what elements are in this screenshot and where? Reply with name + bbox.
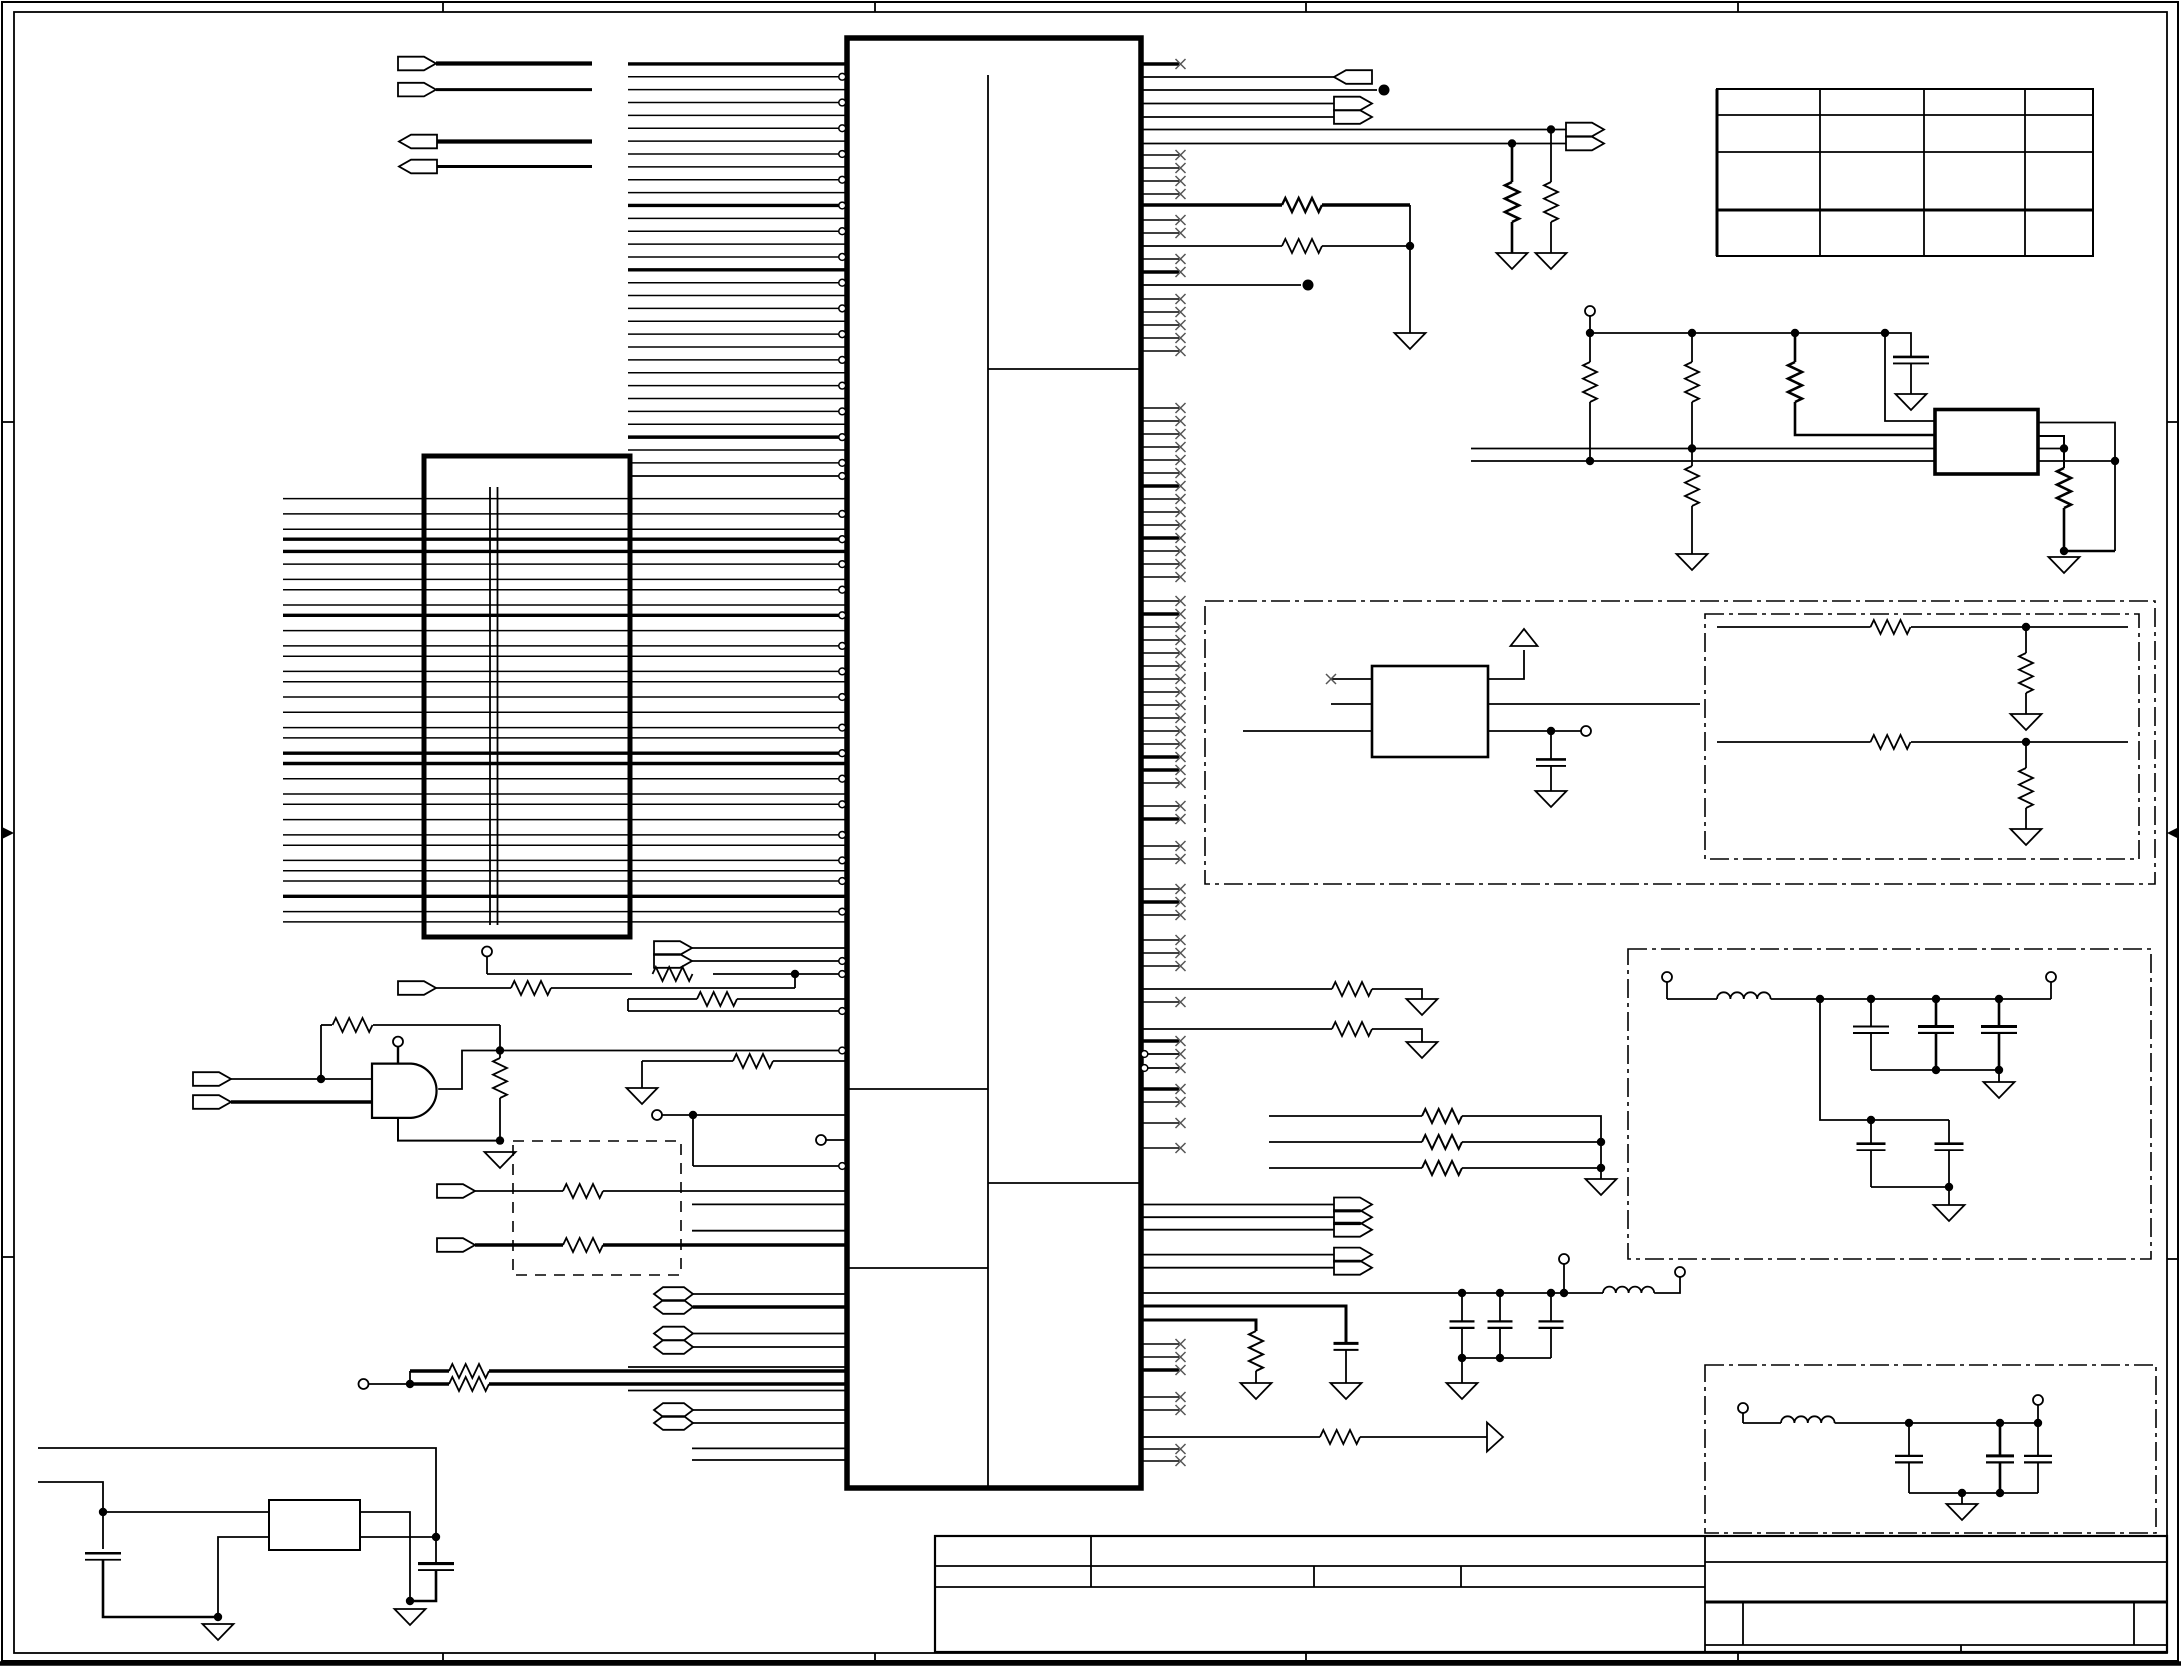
capacitor C4	[1536, 758, 1566, 761]
wire net y1061	[642, 1060, 733, 1062]
revision table col line 2	[1923, 89, 1925, 256]
IC pin stub no-connect NC68	[1141, 1460, 1179, 1462]
wire caps FGH bottom bus	[1462, 1357, 1551, 1359]
wire pulldown net y1029 cont	[1372, 1029, 1422, 1042]
wire reg out A	[2038, 423, 2115, 552]
flag output FS4	[1334, 1248, 1372, 1262]
ground	[627, 1088, 658, 1104]
wire cap G stub	[1499, 1293, 1501, 1321]
flag output K	[1334, 97, 1372, 111]
wire to flag stack3 WF2	[1141, 1216, 1334, 1218]
wire IC left pin top group WL14	[628, 230, 839, 232]
IC pin stub no-connect NC6	[1141, 219, 1179, 221]
wire connector pin WC15	[283, 681, 845, 683]
wire net y1115	[662, 1114, 845, 1116]
power symbol up arrow	[1511, 629, 1538, 646]
node junction	[317, 1075, 325, 1083]
wire pulldown net y1029	[1141, 1028, 1332, 1030]
wire float net B	[1269, 1141, 1422, 1143]
wire connector pin WC4	[283, 538, 839, 541]
wire filter2 rail	[1835, 1422, 2038, 1424]
wire bus y207 cont	[1322, 203, 1410, 206]
frame tick top 3	[1305, 2, 1307, 12]
inductor FB3	[1781, 1416, 1835, 1423]
IC pin stub no-connect NC48	[1141, 888, 1179, 890]
wire osc pin2	[1331, 703, 1372, 705]
node junction	[1547, 727, 1555, 735]
wire to gnd 3	[1461, 1358, 1463, 1383]
IC pin stub no-connect NC67	[1141, 1448, 1179, 1450]
frame tick top 2	[874, 2, 876, 12]
wire bus line 2	[1471, 460, 1935, 462]
IC pin stub no-connect NC15	[1141, 407, 1179, 409]
wire rail to terminal 2	[2037, 1405, 2039, 1423]
frame tick left lower	[2, 1256, 14, 1258]
wire flag C	[437, 139, 592, 143]
wire net y999	[628, 998, 697, 1000]
wire IC left pin top group WL5	[628, 114, 845, 116]
AND gate U2	[372, 1064, 437, 1118]
wire res net y1320	[1141, 1320, 1256, 1331]
wire hex flag	[693, 1333, 845, 1335]
wire connector pin WC9	[283, 604, 845, 606]
capacitor C9	[1935, 1142, 1964, 1145]
IC pin stub no-connect NC32	[1141, 639, 1179, 641]
wire connector pin WC7	[283, 578, 845, 580]
wire regulator gnd pin	[218, 1537, 269, 1617]
wire IC left pin top group WL11	[628, 192, 845, 194]
wire IC left pin top group WL31	[628, 449, 845, 451]
filter box 2 dash-dot	[1705, 1365, 2156, 1533]
wire to flag stack3 WF1	[1141, 1204, 1334, 1206]
node junction	[1406, 242, 1414, 250]
resistor R14	[1282, 239, 1322, 253]
capacitor C10	[1450, 1320, 1475, 1322]
wire float net A cont	[1462, 1116, 1601, 1179]
wire hex flag	[693, 1422, 845, 1424]
terminal circle TP9	[2046, 972, 2056, 982]
title block main divider	[1704, 1536, 1706, 1652]
IC pin stub no-connect NC34	[1141, 665, 1179, 667]
wire IC left pin top group WL23	[628, 346, 845, 348]
wire drop B	[1691, 333, 1693, 362]
terminal circle TP8	[1662, 972, 1672, 982]
buffer arrow symbol	[1487, 1423, 1503, 1452]
IC pin stub no-connect NC13	[1141, 337, 1179, 339]
IC pin stub no-connect NC36	[1141, 691, 1179, 693]
terminal circle TP12	[1738, 1403, 1748, 1413]
wire terminal stub	[1589, 316, 1591, 333]
wire out cap bottom	[410, 1570, 436, 1601]
IC U1 internal vertical divider	[987, 75, 989, 1488]
regulator U3 body	[269, 1500, 360, 1550]
wire bus drop	[1409, 205, 1411, 333]
wire reg pin3 stub	[2038, 448, 2064, 450]
wire to test point 2	[1141, 284, 1301, 286]
node junction	[1458, 1289, 1466, 1297]
frame tick bottom 1	[442, 1653, 444, 1661]
wire IC left pin top group WL29	[628, 423, 845, 425]
wire en cap to gnd	[1550, 766, 1552, 791]
wire input rail lower	[38, 1482, 103, 1549]
IC pin stub no-connect NC12	[1141, 324, 1179, 326]
wire connector pin WC24	[283, 803, 839, 805]
bus flag hex HF3	[654, 1327, 693, 1341]
wire cap I bottom	[1908, 1463, 1910, 1493]
wire IC left pin top group WL27	[628, 398, 845, 400]
frame center arrow left	[2, 827, 14, 839]
wire cap G bottom	[1499, 1328, 1501, 1358]
wire term stub	[1666, 982, 1668, 999]
connector J1 body	[424, 456, 630, 937]
node junction	[2022, 623, 2030, 631]
IC pin stub no-connect NC2	[1141, 154, 1179, 156]
node junction	[2034, 1419, 2042, 1427]
wire gate input 2	[231, 1100, 372, 1103]
wire connector pin WC2	[283, 513, 839, 515]
terminal circle TP1	[482, 947, 492, 957]
IC pin stub no-connect NC27	[1141, 563, 1179, 565]
resistor R27	[1422, 1135, 1462, 1149]
wire terminal stub	[486, 957, 488, 975]
IC U1 internal divider right A	[988, 368, 1141, 370]
wire flag A	[436, 61, 592, 65]
IC pin stub no-connect NC60	[1141, 1122, 1179, 1124]
wire cap I stub	[1908, 1423, 1910, 1455]
inductor FB1	[1717, 992, 1771, 999]
wire y246	[1141, 245, 1282, 247]
IC pin stub no-connect NC61	[1141, 1147, 1179, 1149]
wire cap K stub	[2037, 1423, 2039, 1455]
wire connector pin WC19	[283, 737, 845, 739]
IC U1 body	[847, 38, 1141, 1488]
wire connector pin WC10	[283, 614, 839, 617]
wire IC left pin top group WL24	[628, 359, 839, 361]
wire out cap vertical	[435, 1537, 437, 1563]
terminal circle TP3	[652, 1110, 662, 1120]
wire connector pin WC26	[283, 834, 839, 836]
capacitor C7	[1981, 1025, 2017, 1028]
IC pin stub no-connect NC4	[1141, 180, 1179, 182]
wire reg fb	[2038, 460, 2115, 462]
ground	[1947, 1504, 1978, 1520]
wire gate top pin	[397, 1047, 399, 1064]
wire connector pin WC23	[283, 793, 845, 795]
IC pin stub no-connect NC40	[1141, 743, 1179, 745]
wire cap net y1306 cont	[1345, 1350, 1347, 1383]
terminal circle TP6	[1585, 306, 1595, 316]
wire drop A cont	[1589, 402, 1591, 461]
wire IC left pin top group WL9	[628, 166, 845, 168]
shield box dash-dot inner	[1705, 614, 2139, 859]
wire connector pin WC28	[283, 859, 839, 861]
wire filter rail left	[1667, 998, 1717, 1000]
wire en cap stub	[1550, 731, 1552, 759]
resistor R24	[1332, 982, 1372, 996]
wire float net C cont	[1462, 1167, 1601, 1169]
wire drop C	[1794, 333, 1797, 362]
wire gate output	[438, 1051, 839, 1090]
wire to flag K	[1141, 103, 1334, 105]
IC pin stub no-connect NC16	[1141, 420, 1179, 422]
IC pin stub no-connect NC3	[1141, 167, 1179, 169]
title block right row 2 thick	[1705, 1601, 2167, 1604]
wire term drop 1 cont	[2025, 693, 2027, 714]
ground	[1536, 791, 1567, 807]
wire flag B	[436, 88, 592, 91]
connector J1 inner contact line B	[497, 487, 499, 925]
connector J1 inner contact line A	[489, 487, 491, 925]
wire connector pin WC8	[283, 589, 839, 591]
wire IC left pin top group WL21	[628, 320, 845, 322]
wire net y1390	[628, 1390, 845, 1392]
frame tick left upper	[2, 421, 14, 423]
wire connector pin WC14	[283, 670, 839, 672]
resistor R21	[2019, 653, 2033, 693]
wire IC left pin top group WL25	[628, 372, 845, 374]
title block right col A	[1742, 1602, 1744, 1645]
revision table col line 3	[2024, 89, 2026, 256]
resistor R13	[1282, 198, 1322, 212]
resistor R5	[493, 1058, 507, 1098]
wire net y1191	[475, 1190, 563, 1192]
capacitor C5	[1853, 1025, 1889, 1027]
wire net y1367	[628, 1366, 845, 1368]
node junction	[1458, 1354, 1466, 1362]
wire terminal stub	[1563, 1264, 1565, 1293]
wire connector pin WC12	[283, 645, 839, 647]
node junction	[2060, 444, 2068, 452]
flag output FS1	[1334, 1198, 1372, 1212]
wire reg out B	[2038, 436, 2064, 468]
wire IC left pin top group WL12	[628, 204, 839, 207]
wire gate input 1	[231, 1078, 372, 1080]
wire rail to terminal	[2050, 982, 2052, 999]
wire cap H stub	[1550, 1293, 1552, 1321]
wire cap H bottom	[1550, 1328, 1552, 1358]
wire to flag stack2 WF5	[1141, 1267, 1334, 1269]
wire connector pin WC16	[283, 696, 839, 698]
wire flag O to IC	[692, 947, 845, 949]
flag output L	[1334, 110, 1372, 124]
capacitor C12	[1539, 1320, 1564, 1322]
wire cap D bottom	[1870, 1151, 1872, 1188]
wire net y1245	[475, 1243, 563, 1246]
ground	[1395, 333, 1426, 349]
wire pulldown A cont	[1550, 222, 1552, 253]
wire connector pin WC25	[283, 819, 845, 821]
IC pin stub no-connect NC31	[1141, 626, 1179, 628]
wire cap to gnd rail	[103, 1560, 218, 1617]
wire res net y1320 cont	[1255, 1371, 1257, 1383]
bus flag hex HF5	[654, 1403, 693, 1417]
frame tick bottom 2	[874, 1653, 876, 1661]
ground	[203, 1624, 234, 1640]
capacitor C11	[1488, 1320, 1513, 1322]
node junction	[214, 1613, 222, 1621]
wire connector pin WC31	[283, 895, 845, 898]
wire float net B cont	[1462, 1141, 1601, 1143]
wire resistor branch top	[321, 1024, 332, 1026]
node junction	[1547, 125, 1555, 133]
wire float net C	[1269, 1167, 1422, 1169]
node junction	[2022, 738, 2030, 746]
node junction	[432, 1533, 440, 1541]
test point big dot	[1303, 280, 1314, 291]
IC pin stub no-connect NC66	[1141, 1409, 1179, 1411]
wire gnd stub up	[641, 1061, 643, 1088]
IC pin stub no-connect NC1	[1141, 62, 1179, 65]
wire hex flag	[693, 1346, 845, 1348]
IC pin stub no-connect NC29	[1141, 600, 1179, 602]
resistor R8	[563, 1238, 603, 1252]
IC pin bubble stub NC56	[1141, 1051, 1148, 1058]
resistor R6	[733, 1054, 773, 1068]
wire net y1384	[410, 1382, 449, 1385]
wire term drop 2 cont	[2025, 808, 2027, 829]
capacitor C6	[1918, 1025, 1954, 1028]
node junction	[791, 970, 799, 978]
flag output FS2	[1334, 1210, 1372, 1224]
IC pin stub no-connect NC23	[1141, 511, 1179, 513]
node junction	[1508, 139, 1516, 147]
regulator U4 body	[1935, 410, 2038, 475]
bus flag hex HF2	[654, 1300, 693, 1314]
capacitor C3	[1893, 356, 1929, 359]
wire net y1204	[692, 1203, 845, 1205]
title block right col B	[2133, 1602, 2135, 1645]
wire IC left pin top group WL6	[628, 127, 839, 129]
frame tick bottom 4	[1737, 1653, 1739, 1661]
wire branch vertical left	[320, 1025, 322, 1079]
node junction	[2111, 457, 2119, 465]
inductor FB2	[1603, 1287, 1654, 1293]
flag output N	[1566, 137, 1604, 151]
terminal circle TP7	[1581, 726, 1591, 736]
flag output J	[1334, 70, 1372, 84]
IC pin stub no-connect NC42	[1141, 768, 1179, 771]
node junction	[406, 1380, 414, 1388]
IC pin stub no-connect NC20	[1141, 472, 1179, 474]
shield box dash-dot outer	[1205, 601, 2155, 884]
node junction	[1688, 329, 1696, 337]
capacitor C13	[1334, 1342, 1359, 1345]
wire divider lower	[1691, 449, 1693, 467]
wire gate bottom pin	[398, 1118, 500, 1141]
IC pin stub no-connect NC35	[1141, 678, 1179, 680]
node junction	[1586, 329, 1594, 337]
wire IC left pin top group WL2	[628, 76, 839, 78]
wire terminal to junction	[369, 1383, 411, 1385]
wire net y1460	[692, 1459, 845, 1461]
frame tick top 4	[1737, 2, 1739, 12]
title block right row 1	[1705, 1561, 2167, 1563]
node junction	[1867, 1116, 1875, 1124]
wire corner up	[794, 974, 796, 988]
wire net y1384 cont	[489, 1382, 845, 1385]
wire drop B cont	[1691, 402, 1693, 449]
IC pin stub no-connect NC5	[1141, 193, 1179, 195]
flag input B	[398, 83, 436, 97]
IC pin stub no-connect NC47	[1141, 858, 1179, 860]
resistor R26	[1422, 1109, 1462, 1123]
revision table row line 3 thick	[1717, 209, 2093, 212]
filter box dash-dot	[1628, 949, 2151, 1259]
node junction	[1867, 995, 1875, 1003]
capacitor C1	[85, 1552, 121, 1555]
node junction	[1881, 329, 1889, 337]
node junction	[1995, 995, 2003, 1003]
wire IC left pin top group WL22	[628, 333, 839, 335]
wire pulldown B vertical	[1511, 144, 1514, 183]
wire drop x693	[692, 1115, 694, 1166]
wire clock out y1437 cont	[1360, 1436, 1487, 1438]
bus flag hex HF6	[654, 1416, 693, 1430]
terminal circle TP5	[359, 1379, 369, 1389]
IC pin stub no-connect NC59	[1141, 1101, 1179, 1103]
wire connector pin WC3	[283, 528, 845, 530]
wire osc pin3	[1243, 730, 1372, 732]
node junction	[2060, 547, 2068, 555]
resistor R12	[1505, 182, 1519, 222]
wire IC left pin top group WL10	[628, 179, 839, 181]
wire input rail top	[38, 1448, 436, 1537]
frame tick right upper	[2167, 421, 2178, 423]
resistor R2	[511, 981, 551, 995]
terminal circle TP10	[1559, 1254, 1569, 1264]
node junction	[1996, 1419, 2004, 1427]
wire IC left pin top group WL4	[628, 102, 839, 104]
wire term drop 2	[2025, 742, 2027, 768]
wire connector pin WC21	[283, 762, 845, 765]
test point big dot	[1379, 85, 1390, 96]
node junction	[99, 1508, 107, 1516]
wire cap F bottom	[1461, 1328, 1463, 1358]
title block outline	[935, 1536, 2167, 1652]
IC pin stub no-connect NC9	[1141, 270, 1179, 273]
IC pin stub no-connect NC17	[1141, 433, 1179, 435]
flag output D	[399, 160, 437, 174]
oscillator pin1 stub no-connect	[1331, 678, 1372, 680]
IC pin stub no-connect NC38	[1141, 717, 1179, 719]
wire connector pin WC22	[283, 778, 839, 780]
wire hex flag	[693, 1305, 845, 1308]
wire IC left pin top group WL19	[628, 295, 845, 297]
node junction	[689, 1111, 697, 1119]
IC pin stub no-connect NC43	[1141, 782, 1179, 784]
node junction	[1932, 1066, 1940, 1074]
IC pin stub no-connect NC10	[1141, 298, 1179, 300]
wire net y1011	[628, 1010, 839, 1012]
ground	[1241, 1383, 1272, 1399]
ground	[395, 1609, 426, 1625]
wire bus line 1	[1471, 448, 1935, 450]
wire term line 1	[1717, 626, 1871, 628]
wire connector pin WC1	[283, 498, 845, 500]
sheet outer border bottom thick line	[0, 1661, 2181, 1666]
wire term stub 2	[1742, 1413, 1744, 1423]
terminal circle TP2	[393, 1037, 403, 1047]
wire cap C stub	[1998, 999, 2001, 1026]
node junction	[1816, 995, 1824, 1003]
resistor R28	[1422, 1161, 1462, 1175]
IC pin stub no-connect NC41	[1141, 755, 1179, 758]
wire connector pin WC11	[283, 630, 845, 632]
wire net y1166	[693, 1165, 839, 1167]
wire cap E stub	[1948, 1120, 1950, 1143]
flag input G	[193, 1095, 231, 1109]
IC pin stub no-connect NC24	[1141, 524, 1179, 526]
